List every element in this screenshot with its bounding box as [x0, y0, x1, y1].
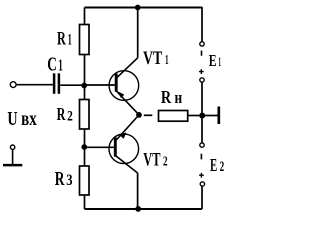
label VT2	[143, 151, 167, 171]
capacitor C1	[54, 73, 59, 94]
transistor VT2	[109, 115, 139, 173]
emitter junction dot node OUT	[136, 112, 142, 118]
wire R1 top	[84, 8, 86, 25]
svg-text:R: R	[55, 169, 65, 190]
wire input to C1	[16, 84, 53, 86]
svg-text:E: E	[210, 155, 217, 175]
wire mid node to output bar	[202, 115, 218, 117]
wire E1 bottom to mid node	[201, 82, 203, 113]
svg-text:E: E	[209, 51, 217, 70]
wire VT1 collector to top rail	[137, 8, 139, 58]
wire R3 bottom to rail	[84, 195, 86, 209]
svg-text:R: R	[57, 104, 66, 124]
svg-text:R: R	[57, 29, 66, 50]
node A junction dot	[81, 83, 87, 89]
svg-text:1: 1	[218, 54, 221, 69]
svg-text:R: R	[161, 87, 172, 107]
wire VT2 collector to bottom rail	[137, 173, 139, 209]
battery E2 terminals	[199, 143, 204, 186]
wire R1 to node A and down to R2	[84, 55, 86, 100]
wire VT1 base	[85, 84, 116, 86]
output terminal bar	[217, 107, 220, 125]
resistor R1	[80, 25, 90, 55]
wire dash node OUT to Rn	[144, 114, 153, 116]
resistor Rn	[159, 111, 188, 122]
wire VT2 base	[85, 146, 114, 148]
label R2	[57, 104, 73, 125]
svg-text:VT: VT	[143, 151, 161, 171]
resistor R3	[80, 166, 90, 195]
label R3	[55, 169, 73, 190]
label R1	[57, 29, 72, 50]
input terminal circle	[10, 82, 16, 88]
transistor VT1	[109, 58, 139, 115]
label E2	[210, 155, 224, 175]
svg-text:1: 1	[58, 56, 63, 75]
svg-text:VT: VT	[143, 49, 163, 69]
junction dot bottom rail	[135, 206, 141, 212]
ground terminal	[3, 145, 22, 165]
label VT1	[143, 49, 169, 69]
label Rn	[161, 87, 182, 107]
wire E2 bottom to rail	[201, 186, 203, 209]
bottom rail wire	[85, 208, 203, 210]
battery E1 terminals	[199, 42, 204, 83]
junction dot top rail	[135, 5, 141, 11]
wire Rn to mid node	[188, 115, 202, 117]
label C1	[47, 55, 63, 76]
resistor R2	[80, 100, 90, 130]
svg-text:3: 3	[66, 172, 73, 189]
svg-text:1: 1	[68, 32, 72, 49]
svg-text:1: 1	[165, 53, 169, 68]
svg-text:2: 2	[220, 159, 225, 175]
node B junction dot	[81, 144, 87, 150]
svg-text:2: 2	[163, 155, 168, 170]
wire E1 top drop	[201, 7, 203, 42]
label Uвх	[7, 108, 36, 130]
wire R2 to node B and down to R3	[84, 129, 86, 166]
label E1	[209, 51, 221, 70]
svg-text:н: н	[175, 88, 183, 107]
mid node junction dot	[199, 113, 205, 119]
svg-text:2: 2	[67, 109, 73, 125]
wire mid node to E2	[201, 118, 203, 143]
svg-text:U: U	[7, 108, 17, 130]
wire C1 to node A	[60, 84, 84, 86]
svg-text:вх: вх	[21, 108, 37, 130]
svg-text:C: C	[47, 55, 57, 76]
top rail wire	[85, 7, 203, 9]
